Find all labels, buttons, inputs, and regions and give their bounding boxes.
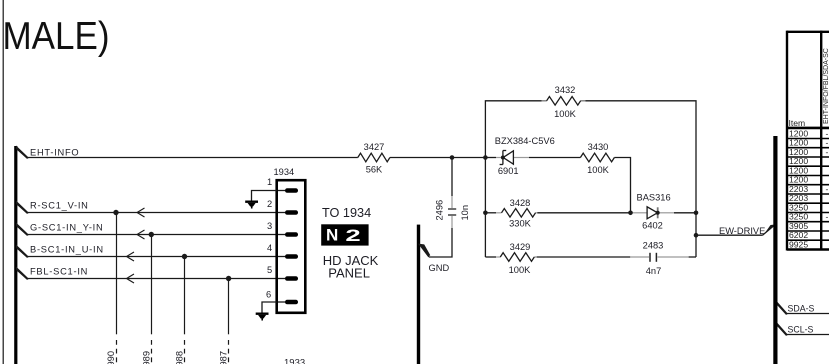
svg-text:6: 6 [266, 290, 271, 300]
svg-text:G-SC1-IN_Y-IN: G-SC1-IN_Y-IN [30, 223, 103, 233]
svg-text:-: - [826, 147, 829, 157]
svg-text:GND: GND [429, 263, 450, 273]
svg-text:100K: 100K [554, 109, 577, 119]
svg-text:3430: 3430 [588, 142, 609, 152]
svg-text:100K: 100K [587, 165, 610, 175]
svg-text:1: 1 [267, 177, 272, 187]
svg-text:Item: Item [789, 118, 806, 128]
svg-text:1933: 1933 [284, 358, 305, 364]
svg-text:EW-DRIVE: EW-DRIVE [719, 226, 765, 236]
svg-text:3: 3 [267, 221, 272, 231]
svg-text:3432: 3432 [555, 85, 576, 95]
svg-text:10n: 10n [460, 205, 470, 221]
svg-text:BZX384-C5V6: BZX384-C5V6 [495, 136, 555, 146]
svg-text:MALE): MALE) [3, 14, 110, 57]
svg-text:988: 988 [175, 351, 185, 364]
svg-text:N: N [326, 226, 338, 245]
svg-text:EHT-INFO/FBL/SDA-SC: EHT-INFO/FBL/SDA-SC [823, 48, 829, 124]
svg-text:2: 2 [267, 199, 272, 209]
svg-text:FBL-SC1-IN: FBL-SC1-IN [30, 267, 88, 277]
svg-text:2483: 2483 [643, 241, 664, 251]
svg-text:2496: 2496 [435, 200, 445, 221]
svg-text:SDA-S: SDA-S [788, 304, 815, 314]
svg-text:EHT-INFO: EHT-INFO [30, 148, 79, 158]
svg-text:9925: 9925 [789, 239, 808, 249]
svg-text:989: 989 [141, 351, 151, 364]
svg-text:BAS316: BAS316 [637, 193, 671, 203]
svg-text:3429: 3429 [510, 242, 531, 252]
svg-text:SCL-S: SCL-S [788, 325, 814, 335]
svg-text:6402: 6402 [642, 220, 663, 230]
svg-text:TO 1934: TO 1934 [322, 206, 371, 220]
svg-text:2: 2 [345, 225, 360, 244]
svg-text:B-SC1-IN_U-IN: B-SC1-IN_U-IN [30, 245, 104, 255]
svg-text:4n7: 4n7 [646, 266, 662, 276]
svg-text:4: 4 [267, 243, 272, 253]
svg-text:3428: 3428 [510, 198, 531, 208]
svg-text:1934: 1934 [274, 167, 295, 177]
svg-text:990: 990 [106, 351, 116, 364]
svg-text:5: 5 [267, 265, 272, 275]
svg-text:100K: 100K [509, 265, 532, 275]
svg-text:R-SC1_V-IN: R-SC1_V-IN [30, 201, 89, 211]
svg-text:6901: 6901 [498, 166, 519, 176]
svg-text:56K: 56K [366, 165, 383, 175]
svg-text:987: 987 [219, 351, 229, 364]
svg-text:3427: 3427 [364, 142, 385, 152]
svg-text:330K: 330K [509, 219, 532, 229]
svg-text:PANEL: PANEL [328, 265, 370, 280]
svg-text:-: - [826, 184, 829, 194]
svg-text:-: - [826, 212, 829, 222]
